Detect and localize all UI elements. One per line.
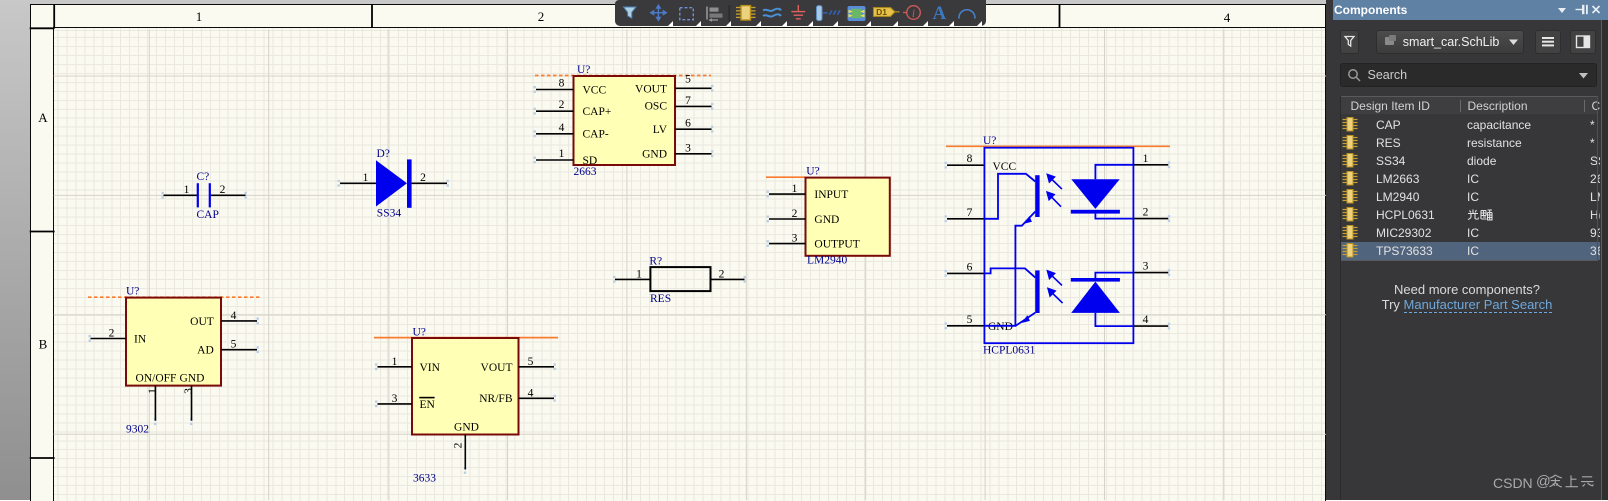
svg-text:U?: U? — [126, 286, 139, 298]
svg-text:4: 4 — [231, 310, 237, 322]
svg-text:1: 1 — [636, 268, 642, 280]
svg-text:GND: GND — [988, 321, 1013, 333]
svg-text:9302: 9302 — [126, 424, 149, 436]
svg-text:2: 2 — [538, 9, 545, 24]
svg-text:6: 6 — [967, 261, 973, 273]
svg-text:1: 1 — [792, 183, 798, 195]
svg-text:2: 2 — [719, 268, 725, 280]
svg-text:1: 1 — [559, 148, 565, 160]
svg-text:8: 8 — [967, 153, 973, 165]
svg-text:5: 5 — [231, 339, 237, 351]
svg-text:GND: GND — [454, 421, 479, 433]
svg-text:VOUT: VOUT — [635, 84, 667, 96]
svg-text:CAP: CAP — [197, 209, 219, 221]
svg-text:VOUT: VOUT — [481, 362, 513, 374]
svg-text:EN: EN — [420, 399, 436, 411]
svg-text:4: 4 — [528, 387, 534, 399]
svg-text:OUTPUT: OUTPUT — [814, 239, 859, 251]
svg-text:VCC: VCC — [583, 84, 607, 96]
svg-text:1: 1 — [1143, 153, 1149, 165]
svg-text:i: i — [912, 8, 915, 20]
svg-text:SS34: SS34 — [377, 208, 402, 220]
svg-text:3: 3 — [183, 388, 195, 394]
svg-text:NR/FB: NR/FB — [479, 393, 513, 405]
svg-text:U?: U? — [413, 327, 426, 339]
svg-text:5: 5 — [967, 314, 973, 326]
svg-text:D?: D? — [377, 148, 390, 160]
svg-text:INPUT: INPUT — [814, 189, 848, 201]
svg-text:AD: AD — [197, 345, 214, 357]
svg-text:2: 2 — [1143, 207, 1149, 219]
svg-text:7: 7 — [967, 207, 973, 219]
svg-text:OUT: OUT — [190, 316, 214, 328]
svg-text:CAP+: CAP+ — [583, 106, 612, 118]
svg-text:D1: D1 — [876, 7, 887, 17]
svg-text:2: 2 — [109, 328, 115, 340]
svg-text:GND: GND — [642, 149, 667, 161]
svg-text:VCC: VCC — [993, 161, 1017, 173]
svg-text:2663: 2663 — [574, 166, 597, 178]
svg-text:2: 2 — [559, 99, 565, 111]
svg-text:2: 2 — [220, 184, 226, 196]
svg-text:RES: RES — [650, 293, 671, 305]
svg-text:VIN: VIN — [420, 362, 441, 374]
svg-text:8: 8 — [559, 78, 565, 90]
svg-text:1: 1 — [196, 9, 203, 24]
svg-text:3: 3 — [792, 233, 798, 245]
svg-text:6: 6 — [685, 118, 691, 130]
svg-text:3: 3 — [392, 393, 398, 405]
svg-text:B: B — [39, 337, 48, 352]
svg-text:1: 1 — [392, 356, 398, 368]
svg-text:A: A — [933, 3, 947, 24]
svg-text:4: 4 — [1224, 10, 1231, 25]
svg-text:2: 2 — [453, 442, 465, 448]
svg-text:2: 2 — [420, 172, 426, 184]
svg-text:1: 1 — [147, 388, 159, 394]
svg-text:5: 5 — [528, 356, 534, 368]
svg-text:LM2940: LM2940 — [807, 255, 848, 267]
svg-text:U?: U? — [577, 64, 590, 76]
svg-text:CAP-: CAP- — [583, 129, 609, 141]
svg-text:A: A — [38, 110, 48, 125]
svg-text:2: 2 — [792, 208, 798, 220]
svg-text:GND: GND — [180, 372, 205, 384]
svg-text:U?: U? — [806, 166, 819, 178]
svg-text:U?: U? — [983, 135, 996, 147]
svg-text:3633: 3633 — [413, 473, 436, 485]
svg-text:4: 4 — [559, 122, 565, 134]
svg-text:3: 3 — [1143, 261, 1149, 273]
svg-text:5: 5 — [685, 74, 691, 86]
svg-text:LV: LV — [653, 124, 668, 136]
svg-text:1: 1 — [184, 184, 190, 196]
svg-text:SD: SD — [583, 155, 598, 167]
svg-text:R?: R? — [649, 256, 662, 268]
svg-text:1: 1 — [363, 172, 369, 184]
svg-text:OSC: OSC — [645, 101, 668, 113]
svg-text:4: 4 — [1143, 314, 1149, 326]
svg-text:IN: IN — [134, 334, 147, 346]
svg-text:3: 3 — [685, 143, 691, 155]
svg-text:HCPL0631: HCPL0631 — [983, 345, 1036, 357]
svg-text:7: 7 — [685, 95, 691, 107]
svg-text:GND: GND — [814, 214, 839, 226]
svg-text:C?: C? — [197, 171, 210, 183]
svg-text:ON/OFF: ON/OFF — [136, 372, 177, 384]
